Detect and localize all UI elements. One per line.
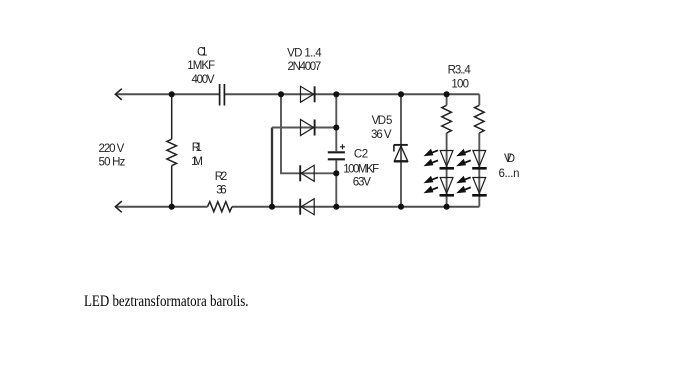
label VD1..4 type (287, 47, 322, 73)
LED string2 upper (456, 149, 487, 169)
svg-text:R1: R1 (192, 142, 202, 154)
svg-text:50 Hz: 50 Hz (99, 157, 126, 169)
svg-text:36: 36 (216, 184, 226, 196)
wire bridge right vertical plus node (335, 94, 337, 151)
wire bridge left vertical node A (281, 94, 301, 173)
junction R1 bottom (169, 204, 175, 210)
zener diode VD5 (394, 145, 408, 161)
junction node A top line (278, 91, 284, 97)
junction VD3 anode (333, 170, 339, 176)
arrow left end of bottom line (115, 201, 121, 212)
junction LED string1 bottom (444, 204, 450, 210)
label 220V 50Hz source (99, 143, 126, 169)
junction plus node top line (333, 91, 339, 97)
svg-text:C 2: C 2 (354, 149, 368, 161)
caption text (84, 293, 249, 310)
label VD5 value (371, 115, 392, 141)
label VD6..n (499, 153, 520, 180)
wire bridge row 3 (301, 172, 337, 174)
wire zener branch vertical (400, 94, 402, 206)
wire bottom AC line (116, 206, 480, 208)
resistor R1 (167, 94, 177, 206)
capacitor C2 polarized (328, 144, 345, 159)
wire bridge row 2 (272, 127, 336, 129)
arrow left end of top line (115, 89, 121, 100)
svg-text:VD 1..4: VD 1..4 (287, 47, 322, 59)
svg-text:VD: VD (504, 153, 515, 165)
junction node B bottom line (269, 204, 275, 210)
label C2 value (343, 149, 379, 189)
diode VD1 (301, 86, 315, 102)
junction R1 top (169, 91, 175, 97)
label R1 value (191, 142, 203, 168)
junction LED string1 top (444, 91, 450, 97)
label R3..4 value (448, 64, 472, 90)
svg-text:C1: C1 (197, 47, 208, 59)
resistor R2 (208, 202, 233, 212)
junction VD5 top (398, 91, 404, 97)
diode VD4 (300, 199, 314, 215)
label C1 value (187, 47, 215, 87)
capacitor C1 (220, 84, 225, 106)
svg-text:100MKF: 100MKF (343, 164, 379, 176)
LED string1 upper (424, 149, 455, 169)
wire top AC line (116, 93, 480, 95)
junction VD2 cathode (333, 124, 339, 130)
svg-text:R3..4: R3..4 (448, 64, 472, 76)
LED string2 lower (456, 176, 487, 196)
svg-text:400V: 400V (192, 74, 215, 86)
wire LED string 2 vertical (478, 94, 480, 206)
wire bridge left vertical node B (271, 128, 273, 207)
svg-text:36 V: 36 V (371, 129, 392, 141)
svg-text:2N4007: 2N4007 (288, 61, 322, 73)
junction minus node bottom line (333, 204, 339, 210)
svg-text:63V: 63V (353, 177, 372, 189)
svg-text:220 V: 220 V (99, 143, 125, 155)
svg-text:R2: R2 (215, 171, 228, 183)
wire LED string 1 vertical (446, 94, 448, 206)
wire bridge right vertical minus node (335, 160, 337, 206)
resistor R3 (442, 105, 452, 133)
svg-text:1M: 1M (191, 156, 203, 168)
LED string1 lower (424, 176, 455, 196)
svg-text:LED beztransformatora barolis.: LED beztransformatora barolis. (84, 293, 249, 310)
junction VD5 bottom (398, 204, 404, 210)
svg-text:100: 100 (451, 78, 469, 90)
svg-text:VD 5: VD 5 (372, 115, 393, 127)
svg-text:6...n: 6...n (499, 168, 520, 180)
label R2 value (215, 171, 228, 196)
diode VD2 (301, 120, 315, 136)
svg-text:1MKF: 1MKF (187, 60, 215, 72)
diode VD3 (300, 165, 314, 181)
resistor R4 (475, 105, 485, 133)
